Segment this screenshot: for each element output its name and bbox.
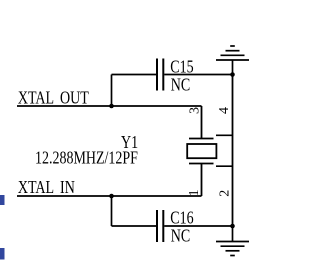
svg-text:NC: NC bbox=[171, 75, 190, 95]
wire C16 right bbox=[164, 225, 232, 227]
capacitor C16 bbox=[157, 210, 163, 242]
wire C15 right bbox=[164, 74, 232, 76]
pins 4/2 rail bbox=[232, 75, 234, 227]
wire XTAL OUT bbox=[17, 105, 202, 107]
crystal Y1 plate bottom bbox=[189, 163, 214, 165]
stub pin 4 bbox=[216, 134, 233, 136]
junction dot XTAL IN bbox=[109, 194, 114, 199]
wire C15 left bbox=[112, 74, 157, 76]
ground bottom bbox=[216, 226, 249, 256]
svg-text:XTAL IN: XTAL IN bbox=[18, 177, 75, 197]
svg-text:4: 4 bbox=[217, 107, 232, 114]
crystal Y1 plate top bbox=[189, 138, 214, 140]
stub pin 2 bbox=[216, 165, 233, 167]
capacitor C15 bbox=[157, 59, 163, 91]
svg-text:3: 3 bbox=[187, 107, 202, 114]
junction dot C16/gnd bbox=[230, 224, 235, 229]
ground top bbox=[216, 46, 249, 75]
svg-text:C15: C15 bbox=[170, 57, 193, 77]
svg-text:12.288MHZ/12PF: 12.288MHZ/12PF bbox=[35, 148, 138, 168]
svg-text:XTAL OUT: XTAL OUT bbox=[18, 88, 89, 108]
crystal Y1 body bbox=[187, 144, 216, 158]
svg-text:2: 2 bbox=[217, 190, 232, 197]
junction dot XTAL OUT bbox=[109, 104, 114, 109]
wire link left bottom bbox=[111, 196, 113, 226]
wire C16 left bbox=[112, 225, 157, 227]
wire XTAL IN bbox=[17, 195, 202, 197]
pin 3 wire bbox=[201, 106, 203, 139]
net marker blue (XTAL IN) bbox=[0, 195, 5, 205]
pin 1 wire bbox=[201, 164, 203, 197]
net marker blue (bottom left) bbox=[0, 248, 5, 260]
junction dot C15/gnd bbox=[230, 72, 235, 77]
svg-text:NC: NC bbox=[171, 226, 190, 246]
wire link left top bbox=[111, 75, 113, 107]
